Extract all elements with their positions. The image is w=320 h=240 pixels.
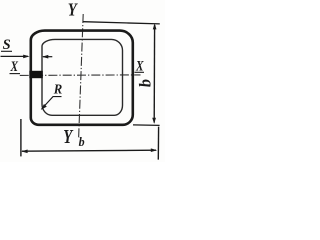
svg-text:X: X	[10, 59, 19, 75]
svg-text:Y: Y	[68, 0, 79, 20]
svg-text:b: b	[79, 135, 85, 149]
svg-text:Y: Y	[63, 126, 73, 148]
svg-text:S: S	[3, 37, 11, 53]
svg-text:b: b	[135, 78, 155, 88]
svg-text:R: R	[53, 83, 62, 98]
